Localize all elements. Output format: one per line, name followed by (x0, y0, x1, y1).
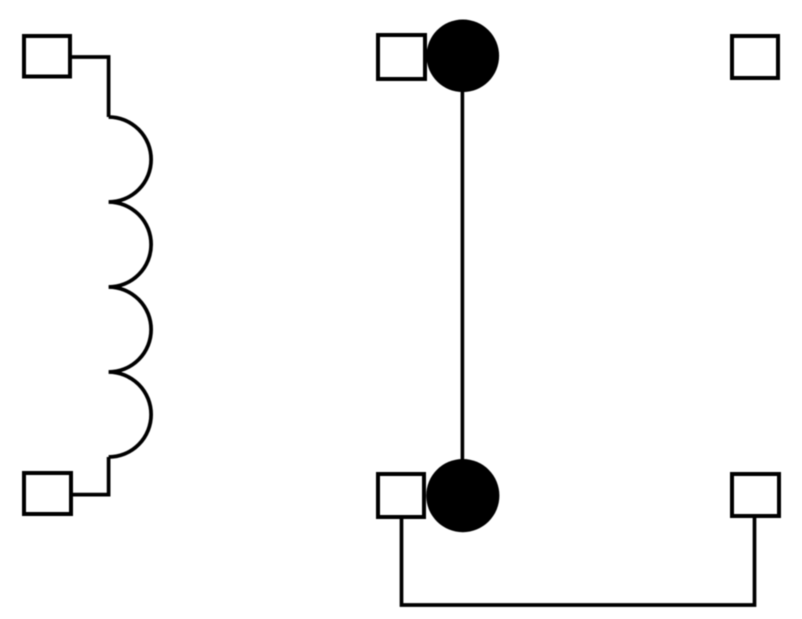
terminal square top-right (732, 36, 778, 78)
terminal square bottom-left (24, 473, 71, 514)
inductor coil L1 (4 semicircular turns) (109, 117, 151, 457)
terminal square top-middle (378, 35, 425, 79)
terminal square bottom-right (732, 474, 779, 516)
terminal square top-left (24, 36, 70, 77)
terminal square bottom-middle (378, 474, 424, 517)
contact dot bottom (filled) (426, 459, 499, 532)
wire from top-left terminal to coil top (72, 57, 109, 117)
wire armature between contacts (461, 56, 465, 496)
contact dot top (filled) (427, 20, 500, 93)
wire from coil bottom to bottom-left terminal (73, 457, 109, 495)
wire from bottom-middle terminal to bottom-right terminal (402, 518, 755, 605)
